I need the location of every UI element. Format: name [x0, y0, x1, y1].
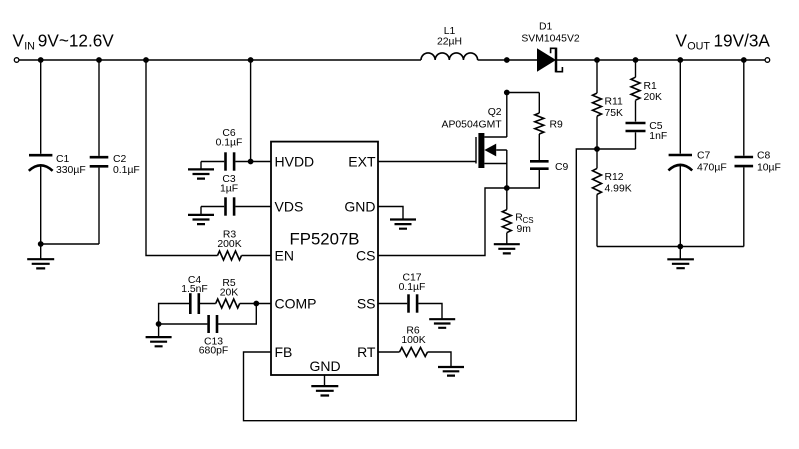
- input terminal: [14, 58, 19, 63]
- svg-text:200K: 200K: [217, 239, 241, 250]
- svg-text:GND: GND: [309, 358, 340, 374]
- capacitor C1: [29, 60, 86, 244]
- node HVDD junction: [248, 159, 254, 165]
- ground GND pin: [390, 220, 416, 229]
- svg-text:COMP: COMP: [275, 296, 317, 312]
- resistor R9: [507, 93, 563, 135]
- wire GND pin: [378, 207, 403, 220]
- wire feedback node: [597, 148, 636, 150]
- svg-text:EXT: EXT: [348, 154, 376, 170]
- capacitor C6: [201, 128, 272, 171]
- node HVDD branch junction: [248, 57, 254, 63]
- svg-text:20K: 20K: [644, 92, 663, 103]
- node R11 top junction: [594, 57, 600, 63]
- diode D1 schottky: [521, 22, 580, 73]
- ground C6: [188, 162, 214, 179]
- svg-text:75K: 75K: [605, 108, 624, 119]
- node C1 top junction: [38, 57, 44, 63]
- ground input: [27, 244, 54, 268]
- svg-text:470µF: 470µF: [697, 163, 727, 174]
- node output ground junction: [677, 244, 683, 250]
- svg-text:680pF: 680pF: [199, 346, 228, 357]
- node COMP junction: [253, 301, 259, 307]
- node C4-C13 ground junction: [156, 321, 162, 327]
- svg-text:22µH: 22µH: [437, 36, 462, 47]
- svg-text:4.99K: 4.99K: [605, 183, 632, 194]
- svg-text:330µF: 330µF: [56, 165, 86, 176]
- wire input ground rail: [41, 243, 99, 245]
- node switch node junction: [504, 57, 510, 63]
- resistor R6: [378, 326, 451, 368]
- svg-text:10µF: 10µF: [757, 163, 781, 174]
- svg-text:EN: EN: [275, 248, 294, 264]
- op-amp U1 FP5207B IC body: [271, 142, 378, 375]
- transistor Q2 AP0504GMT: [442, 93, 507, 189]
- resistor RCS: [502, 188, 533, 244]
- node C8 top junction: [741, 57, 747, 63]
- svg-text:9m: 9m: [517, 224, 531, 235]
- svg-text:R9: R9: [550, 120, 564, 131]
- output terminal: [765, 58, 770, 63]
- resistor R5: [216, 278, 240, 308]
- ground IC GND pin bottom: [311, 375, 338, 396]
- wire D1 to output terminal: [556, 59, 765, 61]
- svg-text:D1: D1: [539, 22, 553, 33]
- svg-text:0.1µF: 0.1µF: [216, 138, 243, 149]
- node Q2 source junction: [504, 185, 510, 191]
- node EN branch junction: [143, 57, 149, 63]
- node C2 top junction: [96, 57, 102, 63]
- svg-text:OUT: OUT: [687, 40, 710, 52]
- capacitor C4: [181, 275, 208, 314]
- node feedback junction: [594, 146, 600, 152]
- svg-text:V: V: [676, 31, 688, 51]
- resistor R1: [631, 60, 662, 122]
- svg-text:SVM1045V2: SVM1045V2: [521, 33, 580, 44]
- net label VOUT: [676, 31, 771, 53]
- svg-text:19V/3A: 19V/3A: [714, 31, 771, 51]
- node Q2 drain junction: [504, 90, 510, 96]
- wire EN branch: [146, 60, 272, 256]
- svg-text:C7: C7: [697, 151, 711, 162]
- capacitor C9: [507, 134, 569, 188]
- capacitor C5: [626, 121, 668, 149]
- svg-text:SS: SS: [357, 296, 376, 312]
- svg-text:R1: R1: [644, 81, 658, 92]
- capacitor C17: [378, 273, 442, 320]
- ground R6: [438, 367, 464, 376]
- wire EXT to Q2 gate: [378, 161, 476, 163]
- svg-text:C2: C2: [113, 154, 127, 165]
- node R1 top junction: [633, 57, 639, 63]
- svg-text:FB: FB: [275, 344, 293, 360]
- ground C3: [188, 207, 214, 225]
- svg-text:C9: C9: [555, 162, 569, 173]
- svg-text:20K: 20K: [220, 287, 239, 298]
- ground C17: [429, 319, 455, 328]
- svg-text:HVDD: HVDD: [275, 154, 315, 170]
- capacitor C7: [668, 60, 726, 247]
- wire HVDD branch: [250, 60, 252, 162]
- svg-text:L1: L1: [444, 26, 456, 37]
- net label VIN: [13, 31, 115, 53]
- ground COMP network: [146, 324, 172, 346]
- wire FB feedback loop: [244, 149, 598, 421]
- svg-text:1nF: 1nF: [649, 131, 667, 142]
- node input ground junction: [38, 241, 44, 247]
- svg-text:0.1µF: 0.1µF: [113, 165, 140, 176]
- svg-text:0.1µF: 0.1µF: [399, 282, 426, 293]
- svg-text:9V~12.6V: 9V~12.6V: [38, 31, 115, 51]
- ground RCS: [494, 244, 520, 253]
- resistor R3: [217, 230, 241, 261]
- wire VIN rail: [19, 59, 421, 61]
- svg-text:R11: R11: [605, 97, 624, 108]
- svg-text:V: V: [13, 31, 25, 51]
- capacitor C8: [735, 60, 781, 247]
- wire L1 to D1: [478, 59, 537, 61]
- svg-text:IN: IN: [24, 40, 35, 52]
- wire COMP network: [159, 304, 272, 325]
- svg-text:100K: 100K: [401, 335, 425, 346]
- svg-text:FP5207B: FP5207B: [290, 230, 360, 249]
- capacitor C2: [90, 60, 140, 244]
- svg-text:C1: C1: [56, 154, 70, 165]
- svg-text:Q2: Q2: [488, 107, 502, 118]
- svg-text:R12: R12: [605, 172, 624, 183]
- resistor R11: [593, 60, 624, 149]
- wire output ground rail: [597, 246, 744, 248]
- svg-text:RT: RT: [357, 344, 376, 360]
- svg-text:1µF: 1µF: [220, 184, 238, 195]
- capacitor C13: [199, 315, 228, 357]
- svg-text:1.5nF: 1.5nF: [181, 284, 208, 295]
- svg-text:GND: GND: [344, 199, 375, 215]
- inductor L1: [421, 26, 478, 60]
- resistor R12: [593, 149, 632, 247]
- svg-text:VDS: VDS: [275, 199, 304, 215]
- wire CS line: [378, 188, 507, 256]
- node C7 top junction: [677, 57, 683, 63]
- capacitor C3: [201, 174, 272, 216]
- ground output: [667, 247, 694, 269]
- svg-text:AP0504GMT: AP0504GMT: [442, 120, 503, 131]
- svg-text:CS: CS: [356, 248, 375, 264]
- svg-text:C8: C8: [757, 151, 771, 162]
